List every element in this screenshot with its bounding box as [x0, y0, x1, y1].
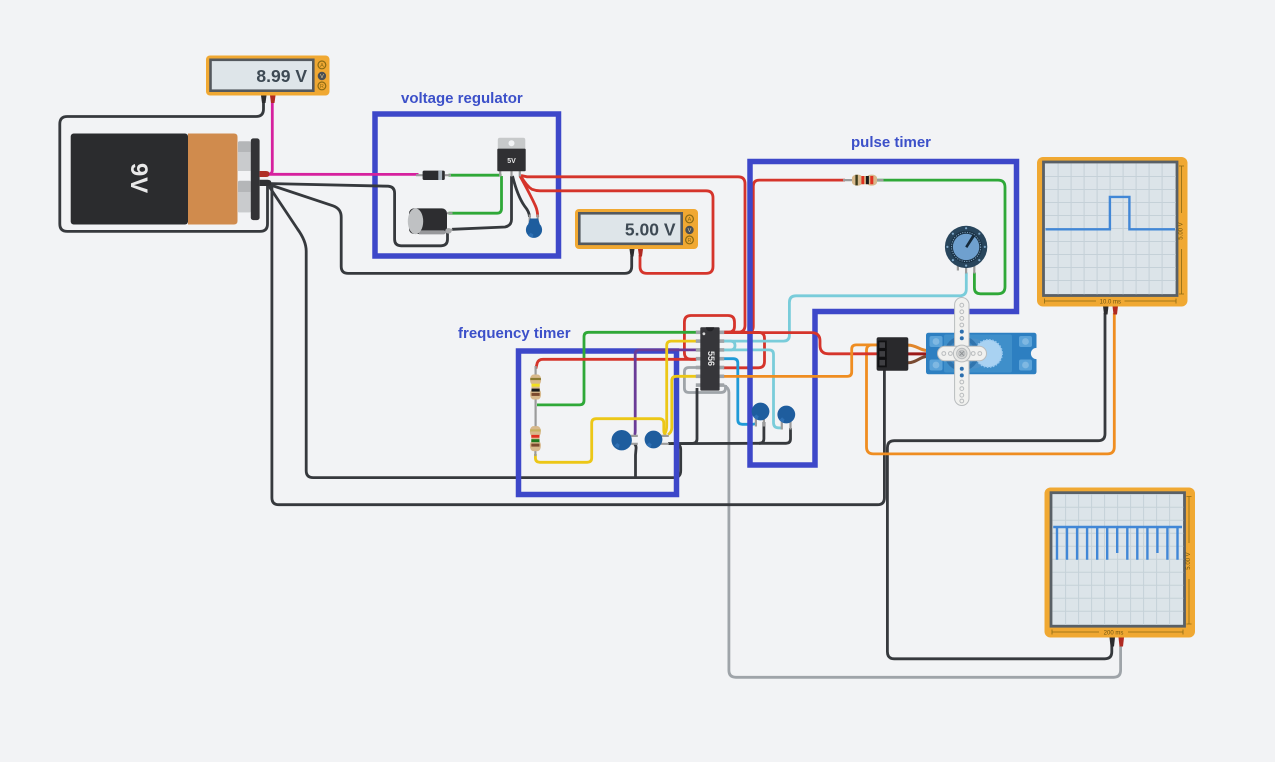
diode D1: [416, 171, 451, 180]
svg-text:pulse timer: pulse timer: [851, 134, 931, 151]
wire: potentiometer RV1 wiper to 556 pin R2: [723, 273, 966, 342]
wire: capacitor C5 right lead to ground bus: [671, 422, 764, 444]
wire: 556 pin R3 to 556 pin R2 loop: [723, 341, 735, 350]
wire: 556 pin R7 to oscilloscope S2 red terminal: [724, 386, 1121, 678]
battery positive stub: [260, 171, 270, 177]
wire: oscilloscope S1 black terminal to oscilloscope S2 black terminal: [887, 313, 1111, 659]
multimeter M1 (8.99 V): [206, 56, 330, 104]
wire: 556 pin L2 to capacitor C4 upper lead: [665, 341, 697, 433]
svg-text:9V: 9V: [125, 163, 152, 194]
pulse resistor R3: [843, 175, 884, 186]
wire: regulator U2 pin2 to capacitor C2 left lead: [513, 176, 530, 217]
556 timer IC U1: [696, 327, 724, 390]
svg-text:556: 556: [706, 351, 716, 366]
ceramic capacitor C5 (pulse, leads down): [752, 403, 770, 427]
oscilloscope S2: [1045, 488, 1196, 647]
svg-text:voltage regulator: voltage regulator: [401, 90, 523, 107]
multimeter M2 (5.00 V): [575, 209, 698, 257]
wire: capacitor C1 positive to regulator U2 pin1: [449, 176, 502, 213]
wire: battery negative to capacitor C1 negative: [268, 184, 448, 246]
svg-text:A: A: [320, 63, 324, 69]
wire: pulse resistor R3 right to potentiometer RV1 right lead: [877, 180, 1005, 294]
svg-text:V: V: [688, 228, 692, 234]
wire: capacitor C3 lower lead to ground bus: [635, 444, 637, 478]
wire: battery negative to frequency caps ground: [268, 184, 681, 478]
wire: 556 pin L7 ground to capacitor C4 lower lead: [668, 388, 697, 444]
ceramic capacitor C2: [526, 215, 542, 238]
svg-text:5.00 V: 5.00 V: [1179, 222, 1185, 239]
annotation box: frequency timer: [519, 351, 677, 495]
wire: battery positive to diode D1 anode: [267, 173, 419, 176]
freq resistor R2: [530, 426, 541, 456]
svg-text:8.99 V: 8.99 V: [256, 66, 307, 86]
wire: battery negative loop to multimeter M1 black terminal: [60, 101, 268, 232]
svg-text:10.0 ms: 10.0 ms: [1100, 299, 1121, 305]
svg-text:5.00 V: 5.00 V: [1186, 552, 1192, 569]
svg-text:5.00 V: 5.00 V: [625, 219, 676, 239]
servo horn: [938, 298, 987, 406]
wire: freq resistor R2 bottom to capacitor C4 upper lead: [535, 419, 666, 463]
wire: multimeter M1 red terminal to battery positive: [266, 101, 272, 175]
battery BAT1 body: [71, 134, 272, 225]
electrolytic capacitor C1: [408, 208, 453, 234]
wire: servo connector signal pin to oscilloscope S1 red terminal: [867, 313, 1115, 454]
svg-text:frequency timer: frequency timer: [458, 325, 571, 342]
potentiometer RV1: [945, 226, 987, 274]
ceramic capacitor C3 (freq, leads right): [612, 430, 638, 450]
servo M3: [926, 333, 1042, 375]
ceramic capacitor C6 (pulse, leads down): [777, 406, 795, 430]
wire: capacitor C6 right lead to ground bus: [759, 428, 791, 443]
wire: 556 pin L6 to capacitor C4 upper lead: [668, 376, 697, 434]
wire: 556 pin R1 to 556 pin R5 (reset2 to Vcc): [723, 332, 765, 367]
wire: regulator U2 pin3 to capacitor C2 right lead: [520, 176, 538, 217]
wire: 556 pin R4 to capacitor C5 left lead: [723, 359, 756, 425]
wire: 556 pin R1 to pulse resistor R3 left: [723, 180, 845, 332]
wire: regulator U2 pin3 output to 556 pin R1 (Vcc): [521, 176, 745, 333]
wire: regulator U2 pin2 to capacitor C1 negative: [452, 176, 512, 229]
wire: freq node between R1 R2 to 556 pin L1: [537, 332, 697, 405]
wire: 556 pin R1 to servo connector power pin: [723, 333, 877, 354]
wire: battery negative to servo connector ground pin: [272, 186, 885, 505]
svg-text:R: R: [320, 84, 324, 90]
freq resistor R1: [530, 366, 541, 427]
battery negative stub: [260, 180, 272, 186]
voltage regulator U2 (7805 5V): [497, 138, 525, 177]
svg-text:R: R: [688, 238, 692, 244]
wire: 556 pin L3 to capacitor C3 upper lead: [634, 350, 696, 435]
wire: 556 pin L4 to freq resistor R1 top: [536, 359, 697, 368]
svg-text:V: V: [320, 74, 324, 80]
wire: 556 pin R6 output to servo connector signal pin: [723, 345, 877, 377]
wire: multimeter M2 black terminal to battery negative: [268, 184, 632, 273]
wire: diode D1 cathode to regulator U2 pin1: [449, 174, 502, 177]
wire: 556 pin L5 to 556 pin R7 under chip: [684, 368, 725, 393]
svg-text:5V: 5V: [507, 158, 516, 165]
annotation box: voltage regulator: [375, 114, 559, 256]
servo connector J1: [877, 337, 926, 371]
wire: 556 pin R3 to capacitor C6 left lead: [723, 350, 782, 428]
wire: regulator U2 pin3 output to multimeter M2 red terminal: [521, 177, 713, 274]
oscilloscope S1: [1037, 157, 1188, 315]
wire: 556 pin L4 hook to 556 pin R1: [684, 316, 734, 360]
svg-text:200 ms: 200 ms: [1104, 630, 1124, 636]
annotation box: pulse timer (L-shape): [750, 162, 1017, 466]
ceramic capacitor C4 (freq, leads right): [645, 431, 669, 449]
svg-text:A: A: [688, 217, 692, 223]
